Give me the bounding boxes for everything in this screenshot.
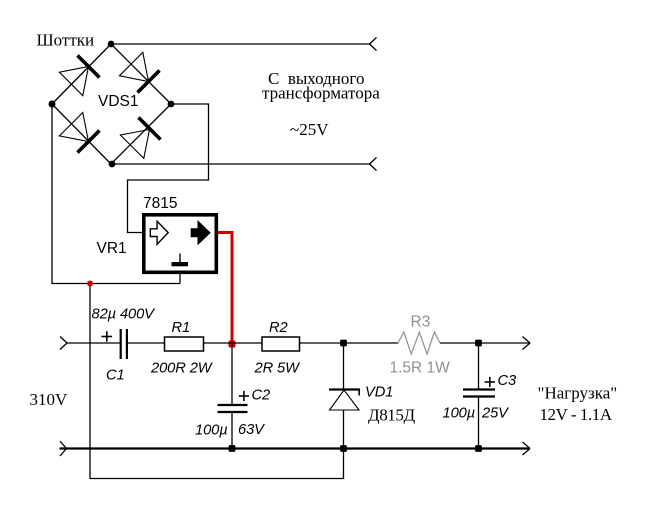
svg-text:100µ: 100µ — [195, 423, 228, 439]
svg-text:12V - 1.1A: 12V - 1.1A — [540, 405, 613, 424]
arrow 310V input — [60, 337, 67, 350]
wire left node down to common line — [52, 104, 180, 284]
svg-text:200R 2W: 200R 2W — [150, 361, 214, 377]
resistor R1 — [165, 337, 204, 351]
svg-text:R1: R1 — [172, 320, 191, 336]
svg-text:~25V: ~25V — [290, 120, 329, 139]
svg-text:Д815Д: Д815Д — [368, 406, 415, 425]
svg-text:"Нагрузка": "Нагрузка" — [538, 384, 618, 403]
diode VDS1.1 (left node to top node) — [59, 56, 99, 96]
arrow bottom AC input — [370, 158, 377, 171]
svg-text:C2: C2 — [252, 388, 271, 404]
plus sign C3 — [485, 377, 495, 387]
junction C3 top — [475, 340, 482, 347]
diode VDS1.3 (left node to bottom node) — [59, 113, 99, 153]
wire VD1 to bottom rail — [343, 410, 345, 449]
wire red node down to C2 — [231, 344, 233, 404]
arrow top AC input — [370, 38, 377, 51]
node bottom AC — [109, 161, 116, 168]
svg-text:82µ 400V: 82µ 400V — [92, 307, 156, 323]
svg-text:Шоттки: Шоттки — [37, 31, 95, 50]
junction VD1 bottom — [340, 445, 347, 452]
junction C2 bottom — [229, 445, 236, 452]
svg-text:R2: R2 — [269, 320, 288, 336]
node right (plus) — [168, 101, 175, 108]
svg-text:R3: R3 — [411, 314, 431, 331]
svg-text:7815: 7815 — [143, 195, 177, 212]
regulator input arrow (open) — [150, 221, 168, 244]
svg-text:C3: C3 — [498, 373, 518, 389]
arrow bottom rail output — [523, 442, 531, 455]
zener diode VD1 — [329, 390, 360, 411]
wire top AC line — [111, 43, 370, 45]
svg-text:63V: 63V — [238, 422, 265, 438]
svg-text:VR1: VR1 — [97, 240, 127, 257]
wire R1 to R2 — [204, 342, 263, 344]
svg-text:VD1: VD1 — [365, 385, 393, 401]
wire C2 to bottom rail — [231, 413, 233, 449]
svg-text:100µ: 100µ — [443, 406, 476, 422]
plus sign C2 — [239, 391, 249, 401]
wire C3 to bottom rail — [478, 398, 480, 449]
junction common (red) — [87, 281, 93, 287]
capacitor C3 — [463, 390, 495, 397]
diode VDS1.4 (bottom node to right node) — [120, 118, 160, 159]
svg-text:310V: 310V — [30, 390, 69, 409]
wire R2 to R3 — [300, 342, 399, 344]
label С выходного трансформатора — [262, 69, 380, 103]
bridge rectifier VDS1 frame wires — [52, 44, 171, 164]
wire C1 to R1 — [128, 342, 165, 344]
svg-text:VDS1: VDS1 — [98, 93, 139, 110]
resistor R3 (grey zigzag) — [398, 332, 440, 354]
plus sign C1 — [102, 331, 113, 342]
junction VD1 top — [340, 340, 347, 347]
wire regulator common to common line — [179, 274, 181, 284]
svg-text:C1: C1 — [106, 368, 125, 384]
wire 310V rail to C1 — [67, 342, 120, 344]
svg-text:2R 5W: 2R 5W — [254, 361, 302, 377]
diode VDS1.2 (top node to right node) — [119, 52, 159, 92]
regulator VR1 box — [144, 215, 217, 272]
svg-text:25V: 25V — [481, 406, 509, 422]
wire common branch down — [90, 284, 344, 479]
svg-text:1.5R 1W: 1.5R 1W — [390, 360, 451, 377]
capacitor C1 — [121, 329, 127, 359]
wire R3 to output arrow — [440, 342, 530, 344]
node left (minus) — [49, 101, 56, 108]
regulator output arrow (solid) — [191, 221, 210, 244]
wire rail to C3 — [478, 343, 480, 389]
arrow bottom rail input — [60, 441, 67, 456]
junction regulator output on rail (red) — [229, 341, 236, 348]
wire rail to VD1 — [343, 343, 345, 390]
junction C3 bottom — [475, 445, 482, 452]
resistor R2 — [262, 337, 300, 351]
wire bottom AC line — [112, 163, 370, 165]
arrow output plus — [523, 337, 531, 350]
wire regulator output (red) — [218, 233, 232, 345]
capacitor C2 — [218, 405, 248, 412]
regulator common pin symbol — [172, 254, 189, 267]
node top AC — [108, 41, 115, 48]
svg-text:трансформатора: трансформатора — [262, 84, 380, 103]
wire right node to regulator input — [128, 104, 209, 233]
wire bottom rail — [60, 447, 531, 449]
